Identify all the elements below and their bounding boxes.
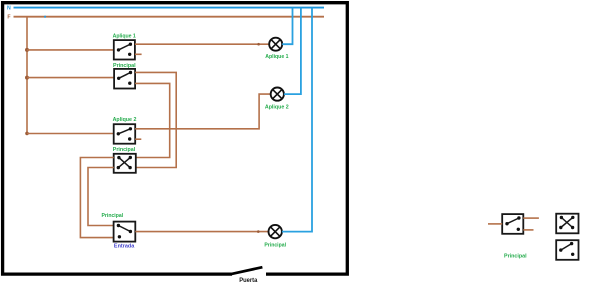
legend wire right top [523, 217, 539, 219]
wire lamp Aplique 2 to N bus [284, 8, 301, 95]
junction dot at feeder corner [25, 132, 29, 136]
switch S3 Aplique 2 [114, 124, 136, 144]
svg-text:N: N [7, 6, 11, 12]
wire feeder to switch S3 [27, 133, 114, 135]
switch S4 Principal (cross switch) [114, 154, 136, 173]
wire S5 to lamp Principal [135, 231, 268, 233]
room wall [3, 3, 348, 274]
blue tick on F bus [44, 16, 46, 18]
traveler wire S4 bottom-left to S5 top input [88, 168, 114, 226]
lamp Aplique 2 [271, 88, 284, 101]
svg-text:F: F [7, 15, 10, 21]
legend cross switch [556, 214, 578, 234]
wire vertex dot [257, 43, 260, 46]
door leaf [232, 267, 263, 274]
wire feeder to switch S2 [27, 77, 114, 79]
wire lamp Principal to N bus [282, 8, 312, 232]
phase feeder vertical wire [26, 17, 28, 134]
switch S1 Aplique 1 [114, 40, 135, 59]
svg-text:Aplique 1: Aplique 1 [113, 33, 136, 39]
svg-text:Aplique 1: Aplique 1 [265, 54, 288, 60]
lamp Principal [269, 225, 282, 238]
unused stub of S3 [135, 138, 141, 140]
svg-text:Aplique 2: Aplique 2 [265, 105, 289, 111]
wire S1 to lamp Aplique 1 [135, 43, 269, 45]
legend switch (conmutador with wires) [502, 214, 523, 234]
wire S3 to lamp Aplique 2 [135, 94, 271, 129]
phase bus F [14, 16, 325, 18]
svg-text:Principal: Principal [504, 254, 527, 260]
svg-text:Entrada: Entrada [114, 243, 134, 249]
junction dot at feeder / S1 branch [25, 48, 29, 52]
legend wire left [488, 223, 502, 225]
svg-text:Puerta: Puerta [239, 277, 258, 284]
switch S5 Entrada (conmutador 2) [114, 222, 136, 242]
traveler wire S4 top-left to S5 bottom input [80, 158, 113, 238]
junction dot at feeder / S2 branch [25, 76, 29, 80]
wire feeder to switch S1 [27, 49, 114, 51]
switch S2 Principal (conmutador 1) [114, 69, 135, 89]
wire vertex dot [257, 230, 260, 233]
svg-text:Principal: Principal [264, 243, 286, 249]
legend wire right bottom [523, 229, 533, 231]
traveler wire S2 bottom to cross switch top-right [135, 83, 170, 157]
lamp Aplique 1 [269, 38, 282, 51]
svg-text:Principal: Principal [113, 147, 136, 153]
neutral bus N [14, 7, 325, 9]
svg-text:Principal: Principal [102, 213, 124, 219]
legend plain switch [556, 240, 578, 260]
unused stub of S1 [135, 53, 142, 55]
svg-text:Aplique 2: Aplique 2 [113, 117, 137, 123]
wire lamp Aplique 1 to N bus [282, 8, 292, 45]
traveler wire S2 top to cross switch bottom-right [135, 72, 176, 167]
